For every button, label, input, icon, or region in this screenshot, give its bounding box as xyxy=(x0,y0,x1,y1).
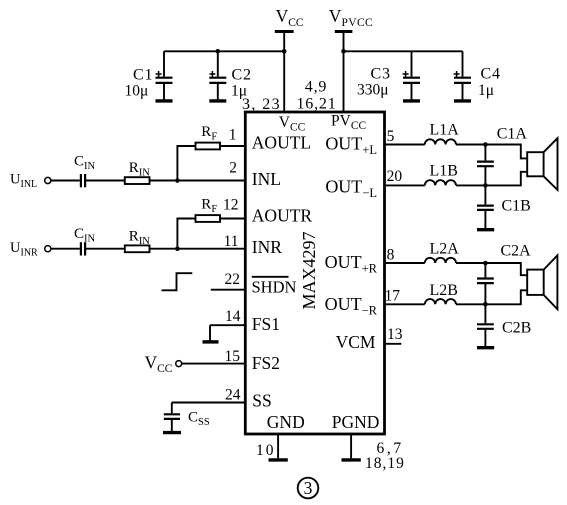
wire: PVCC rail to C3/C4 xyxy=(344,50,463,52)
node: OUT-L filter junction xyxy=(483,183,488,188)
ground bar (C1) xyxy=(156,99,173,102)
wire: pin 14 stub xyxy=(210,324,245,326)
svg-text:RIN: RIN xyxy=(129,160,151,178)
svg-text:13: 13 xyxy=(387,326,403,343)
wire: pin 22 stub xyxy=(211,289,246,291)
inductor L2A xyxy=(425,241,459,264)
svg-text:VCC: VCC xyxy=(276,6,304,29)
svg-text:OUT+R: OUT+R xyxy=(325,252,378,276)
input terminal UINL xyxy=(10,172,51,190)
capacitor CIN (right channel) xyxy=(74,226,96,256)
svg-text:INR: INR xyxy=(252,237,282,257)
svg-text:CIN: CIN xyxy=(74,154,96,172)
svg-text:C2: C2 xyxy=(232,67,252,84)
input terminal UINR xyxy=(10,240,51,258)
shutdown step waveform symbol xyxy=(162,273,193,290)
svg-text:VCC: VCC xyxy=(145,353,173,376)
wire: pin 17 to L2B xyxy=(385,303,425,305)
svg-text:C2B: C2B xyxy=(502,320,531,337)
wire: pin 13 stub xyxy=(385,343,402,345)
ground bar (pin 10) xyxy=(269,458,288,461)
svg-text:1μ: 1μ xyxy=(478,82,494,99)
svg-text:24: 24 xyxy=(225,387,241,404)
svg-text:RIN: RIN xyxy=(129,229,151,247)
svg-text:15: 15 xyxy=(225,348,241,365)
svg-text:CSS: CSS xyxy=(188,410,210,428)
wire: SS to CSS xyxy=(171,403,173,414)
wire: FS1 to ground xyxy=(209,325,211,341)
capacitor CIN (left channel) xyxy=(74,154,96,188)
svg-text:OUT−L: OUT−L xyxy=(325,177,377,201)
node: OUT+R filter junction xyxy=(483,261,488,266)
resistor RF (left channel feedback) xyxy=(196,124,221,149)
node: OUT+L filter junction xyxy=(483,142,488,147)
wire: L2A to speaker top xyxy=(456,263,527,275)
svg-text:RF: RF xyxy=(201,197,217,215)
svg-text:3, 23: 3, 23 xyxy=(242,96,281,113)
wire: UINL to CIN xyxy=(51,180,80,182)
wire: VCC to pin 15 xyxy=(182,363,246,365)
svg-text:C1B: C1B xyxy=(502,198,531,215)
svg-text:18,19: 18,19 xyxy=(365,455,405,472)
node: INR junction dot xyxy=(175,246,180,251)
svg-text:L2B: L2B xyxy=(430,282,458,299)
svg-text:RF: RF xyxy=(201,124,217,142)
ground bar (FS1) xyxy=(203,340,219,343)
svg-text:UINL: UINL xyxy=(10,172,37,190)
resistor RIN (left channel) xyxy=(125,160,151,184)
svg-text:14: 14 xyxy=(225,308,241,325)
capacitor C4 xyxy=(454,51,501,99)
ground bar (PGND) xyxy=(342,458,361,461)
node: VCC junction dot xyxy=(282,49,287,54)
svg-text:10: 10 xyxy=(256,442,276,459)
svg-text:GND: GND xyxy=(267,412,305,432)
wire: CIN to RIN xyxy=(85,180,125,182)
inductor L2B xyxy=(425,282,458,304)
wire: RF to pin 1 xyxy=(220,145,245,147)
svg-text:VCM: VCM xyxy=(336,332,376,352)
svg-text:UINR: UINR xyxy=(10,240,38,258)
node: OUT-R filter junction xyxy=(483,302,488,307)
svg-text:C3: C3 xyxy=(371,66,391,83)
wire: CIN to RIN (right) xyxy=(85,248,125,250)
svg-text:CIN: CIN xyxy=(74,226,96,244)
svg-text:L1A: L1A xyxy=(430,122,460,139)
svg-text:MAX4297: MAX4297 xyxy=(299,231,319,309)
wire: L1A to speaker top xyxy=(456,145,527,159)
loudspeaker SP2 xyxy=(527,255,557,309)
svg-text:VCC: VCC xyxy=(279,114,306,133)
svg-text:4,9: 4,9 xyxy=(305,79,327,96)
ground bar (C2B) xyxy=(477,346,494,349)
svg-text:OUT+L: OUT+L xyxy=(325,134,377,158)
wire: VCC rail to C1/C2 xyxy=(164,50,284,52)
svg-text:330μ: 330μ xyxy=(357,82,389,99)
pin label SHDN with overline xyxy=(252,277,297,297)
svg-text:FS2: FS2 xyxy=(252,353,280,373)
wire: RIN to pin 2 xyxy=(150,180,246,182)
wire: pin 5 to L1A xyxy=(385,144,425,146)
wire: RIN to pin 11 xyxy=(150,248,246,250)
ground bar (C3) xyxy=(403,99,420,102)
svg-text:2: 2 xyxy=(229,160,237,177)
svg-text:INL: INL xyxy=(252,169,281,189)
wire: L2B to speaker bottom xyxy=(456,290,527,304)
power VCC supply symbol xyxy=(275,6,304,112)
svg-text:22: 22 xyxy=(225,271,241,288)
wire: RF to pin 12 xyxy=(220,218,245,220)
svg-text:12: 12 xyxy=(223,197,239,214)
svg-text:1: 1 xyxy=(229,127,237,144)
loudspeaker SP1 xyxy=(527,138,557,190)
capacitor C1 xyxy=(125,51,173,99)
wire: PGND lead xyxy=(350,434,352,458)
svg-text:8: 8 xyxy=(387,247,395,264)
wire: pin 24 stub xyxy=(172,402,246,404)
svg-text:AOUTL: AOUTL xyxy=(252,132,311,152)
IC U1 MAX4297 body xyxy=(245,112,384,434)
capacitor C2B xyxy=(477,304,531,346)
svg-text:VPVCC: VPVCC xyxy=(329,6,373,29)
svg-text:10μ: 10μ xyxy=(125,83,149,100)
svg-text:PVCC: PVCC xyxy=(331,113,366,133)
wire: feedback branch vertical (right) xyxy=(177,219,195,249)
capacitor C1A xyxy=(477,126,527,186)
svg-text:C1A: C1A xyxy=(497,126,528,143)
node: PVCC junction dot xyxy=(341,49,346,54)
resistor RIN (right channel) xyxy=(125,229,151,253)
figure number 3 (circled) xyxy=(298,478,319,499)
svg-text:20: 20 xyxy=(387,168,403,185)
capacitor C2 xyxy=(209,51,251,99)
capacitor C2A xyxy=(477,243,531,305)
wire: pin 20 to L1B xyxy=(385,184,425,186)
node: C2 junction dot xyxy=(216,49,221,54)
svg-text:16,21: 16,21 xyxy=(297,95,337,112)
svg-text:C4: C4 xyxy=(481,66,501,83)
wire: UINR to CIN xyxy=(51,248,80,250)
svg-text:OUT−R: OUT−R xyxy=(325,294,378,318)
power VPVCC supply symbol xyxy=(329,6,373,112)
capacitor CSS xyxy=(164,410,210,432)
svg-text:L2A: L2A xyxy=(430,241,460,258)
svg-text:11: 11 xyxy=(224,233,239,250)
ground bar (C1B) xyxy=(477,228,494,231)
svg-text:SS: SS xyxy=(252,390,271,410)
resistor RF (right channel feedback) xyxy=(196,197,221,222)
capacitor C1B xyxy=(477,185,531,228)
inductor L1A xyxy=(425,122,459,145)
wire: feedback branch vertical xyxy=(177,146,195,181)
svg-text:L1B: L1B xyxy=(430,163,458,180)
capacitor C3 xyxy=(357,51,420,99)
inductor L1B xyxy=(425,163,458,186)
svg-text:3: 3 xyxy=(304,478,313,498)
svg-text:C1: C1 xyxy=(133,67,153,84)
svg-text:FS1: FS1 xyxy=(252,314,280,334)
VCC source terminal for FS2 xyxy=(145,353,182,376)
node: INL junction dot xyxy=(175,178,180,183)
ground bar (CSS) xyxy=(163,431,181,434)
svg-text:AOUTR: AOUTR xyxy=(252,205,313,225)
svg-text:SHDN: SHDN xyxy=(252,277,297,296)
ground bar (C2) xyxy=(209,99,226,102)
svg-text:C2A: C2A xyxy=(501,243,532,260)
svg-text:17: 17 xyxy=(385,288,401,305)
svg-text:PGND: PGND xyxy=(332,412,380,432)
wire: pin 8 to L2A xyxy=(385,262,425,264)
wire: L1B to speaker bottom xyxy=(456,172,527,186)
ground bar (C4) xyxy=(454,99,471,102)
wire: pin 10 GND lead xyxy=(277,434,279,458)
svg-text:5: 5 xyxy=(387,128,395,145)
